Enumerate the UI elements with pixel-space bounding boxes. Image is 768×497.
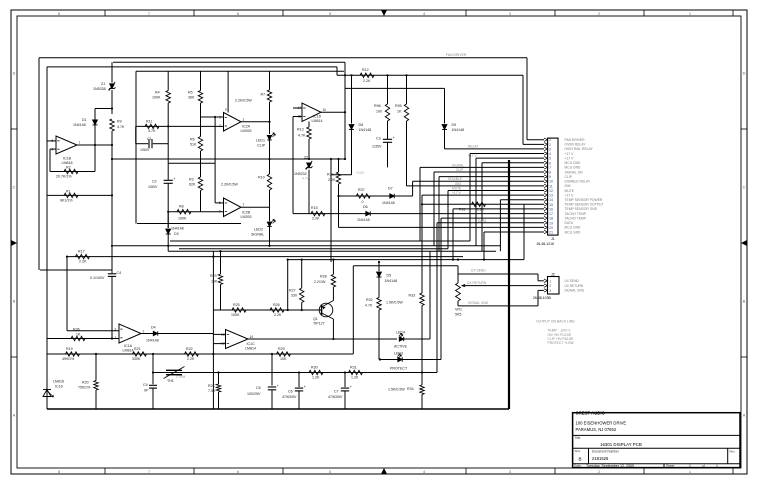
connector J1 pin 10 stub: [544, 180, 548, 183]
svg-text:LED1: LED1: [256, 139, 265, 143]
connector J1 pin 21 stub: [544, 230, 548, 233]
svg-text:100K: 100K: [178, 217, 187, 221]
capacitor C3: [383, 138, 392, 140]
wire R15 row left feeder: [292, 127, 294, 214]
op-amp IC1C: [226, 330, 249, 349]
wire bus row 5b: [353, 265, 458, 267]
LED LED3 PROTECT: [380, 359, 441, 361]
wire left bottom corner: [40, 269, 112, 271]
svg-text:D5: D5: [387, 274, 392, 278]
junction x213: [212, 256, 214, 258]
svg-text:J1: J1: [551, 237, 555, 241]
wire IC1B output: [77, 144, 112, 146]
connector J2 box: [548, 277, 560, 295]
wire middle box left edge: [135, 71, 137, 223]
capacitor C4: [111, 271, 113, 273]
svg-text:R28: R28: [320, 274, 327, 278]
wire row y310: [213, 309, 321, 311]
svg-text:Sheet: Sheet: [666, 464, 674, 468]
svg-text:R32: R32: [366, 298, 373, 302]
svg-text:2.2K: 2.2K: [274, 313, 282, 317]
svg-text:TEMP SENSOR POWER: TEMP SENSOR POWER: [565, 198, 603, 202]
junction C4 IC1A: [111, 337, 113, 339]
diode D4: [153, 331, 158, 336]
resistor R28: [332, 260, 334, 275]
connector J1 pin 2 stub: [544, 143, 548, 146]
svg-text:14: 14: [250, 335, 254, 339]
wire J1 pin16: [452, 209, 454, 260]
svg-text:Size: Size: [575, 449, 581, 453]
junction row372: [152, 371, 154, 373]
svg-text:R3: R3: [189, 178, 194, 182]
junction C7 top: [344, 371, 346, 373]
svg-text:R29: R29: [278, 347, 285, 351]
junction x67: [66, 256, 68, 258]
svg-text:CLIP: CLIP: [257, 144, 266, 148]
svg-text:13: 13: [549, 194, 553, 198]
svg-text:Title: Title: [575, 436, 581, 440]
resistor R27: [301, 260, 303, 288]
svg-text:21: 21: [549, 231, 553, 235]
wire bus row 2: [112, 245, 500, 247]
diode D1: [94, 109, 96, 120]
svg-text:7: 7: [148, 12, 150, 16]
svg-text:LM814: LM814: [123, 349, 134, 353]
resistor R34: [421, 373, 423, 386]
svg-text:TACHO TEMP: TACHO TEMP: [565, 212, 587, 216]
svg-text:1N4148: 1N4148: [73, 123, 86, 127]
svg-text:1.5K/0.5W: 1.5K/0.5W: [386, 300, 403, 304]
svg-text:PROTECT +LOW: PROTECT +LOW: [548, 341, 575, 345]
resistor R26: [270, 308, 284, 312]
resistor R37 row: [339, 195, 413, 197]
wire IC1A output: [141, 333, 213, 335]
border center marker bottom: [381, 468, 387, 474]
title block box: [573, 413, 740, 468]
wire J1 pin19 DATA: [436, 223, 438, 257]
svg-text:C: C: [743, 185, 746, 189]
svg-text:750/1%: 750/1%: [78, 385, 91, 389]
svg-text:IC1A: IC1A: [124, 344, 133, 348]
svg-text:14: 14: [549, 198, 553, 202]
svg-text:1N4148: 1N4148: [385, 279, 398, 283]
svg-text:CLIP: CLIP: [565, 175, 573, 179]
svg-text:MUTE: MUTE: [452, 187, 462, 191]
svg-text:7: 7: [243, 203, 245, 207]
svg-text:J2: J2: [551, 272, 555, 276]
capacitor C5: [271, 354, 273, 386]
svg-text:4: 4: [423, 12, 425, 16]
wire IC2B pin6 row R8: [168, 211, 223, 213]
svg-text:1/50V: 1/50V: [148, 185, 158, 189]
wire J1 pin20 rail: [339, 226, 545, 228]
svg-text:3: 3: [219, 116, 221, 120]
svg-text:Z2: Z2: [304, 155, 308, 159]
junction D5 top: [378, 261, 380, 263]
svg-text:2: 2: [549, 284, 551, 288]
resistor R19: [66, 352, 80, 356]
svg-text:UX SEND: UX SEND: [471, 268, 486, 272]
svg-text:C7: C7: [334, 389, 339, 393]
svg-text:R24: R24: [208, 384, 215, 388]
wire J1 pin15 feeder vertical: [523, 204, 525, 259]
svg-text:6: 6: [237, 470, 239, 474]
resistor R2: [50, 171, 95, 173]
wire left inner vertical: [46, 67, 48, 196]
svg-text:18: 18: [549, 217, 553, 221]
wire middle box bottom: [137, 223, 241, 225]
wire box3 top: [113, 61, 345, 63]
svg-text:R19: R19: [66, 347, 73, 351]
svg-text:Z1: Z1: [101, 82, 105, 86]
svg-text:+17 V: +17 V: [468, 154, 478, 158]
wire J1 pin10 DISABLE: [413, 180, 544, 182]
svg-text:R23: R23: [210, 274, 217, 278]
svg-text:LM814: LM814: [245, 347, 256, 351]
junction R20 top: [95, 353, 97, 355]
svg-text:IC1D: IC1D: [313, 115, 322, 119]
wire D9 rail: [345, 87, 445, 89]
svg-text:8: 8: [58, 12, 60, 16]
connector J1 pin 1 stub: [544, 138, 548, 141]
resistor R29: [277, 352, 291, 356]
svg-text:4.7K: 4.7K: [365, 303, 373, 307]
wire J1 pin12: [447, 190, 449, 248]
title block column line size: [588, 448, 590, 464]
wire IC1D output: [321, 111, 345, 113]
svg-text:16: 16: [549, 207, 553, 211]
resistor R32: [377, 298, 381, 311]
svg-text:100K: 100K: [152, 96, 161, 100]
svg-text:4: 4: [549, 152, 551, 156]
connector J1 pin 9 stub: [544, 175, 548, 178]
svg-text:LM818: LM818: [62, 161, 73, 165]
title block row line 3: [573, 463, 740, 465]
resistor R33: [421, 195, 423, 293]
svg-text:OVER RELAY: OVER RELAY: [565, 143, 587, 147]
svg-text:IC2B: IC2B: [242, 211, 251, 215]
svg-text:330K: 330K: [132, 357, 141, 361]
border zone ticks right: [741, 128, 747, 130]
svg-text:C: C: [13, 185, 16, 189]
svg-text:TEMP SENSOR GND: TEMP SENSOR GND: [565, 207, 598, 211]
op-amp IC2B: [224, 198, 242, 217]
junction R95 top: [405, 74, 407, 76]
svg-text:2: 2: [549, 143, 551, 147]
resistor R4: [167, 71, 169, 90]
svg-text:8: 8: [549, 171, 551, 175]
svg-text:SIGNAL GND: SIGNAL GND: [565, 289, 585, 293]
svg-text:R31: R31: [350, 366, 357, 370]
svg-text:1N4148: 1N4148: [452, 128, 465, 132]
svg-text:100K: 100K: [231, 313, 240, 317]
junction C6 top: [298, 371, 300, 373]
wire bottom rail: [47, 408, 509, 410]
junction bus row5: [483, 259, 485, 261]
svg-text:47/63/5V: 47/63/5V: [282, 395, 297, 399]
svg-text:R11: R11: [146, 120, 152, 124]
wire box2 top: [47, 66, 337, 68]
svg-text:6: 6: [237, 12, 239, 16]
svg-text:1N5232: 1N5232: [294, 172, 307, 176]
wire top box edge / FAN DRIVER net: [39, 57, 527, 59]
thermistor TH1: [166, 369, 182, 371]
svg-text:IC1B: IC1B: [63, 157, 72, 161]
svg-text:HIGH RAIL RELAY: HIGH RAIL RELAY: [565, 147, 594, 151]
connector J1 pin 17 stub: [544, 212, 548, 215]
resistor R11: [136, 125, 224, 127]
svg-text:SIGNAL GND: SIGNAL GND: [468, 301, 489, 305]
svg-text:OUTPUT ON BACK LINE:: OUTPUT ON BACK LINE:: [536, 319, 576, 323]
wire IC2A output: [241, 121, 270, 123]
wire left lower edge: [46, 67, 48, 409]
wire bus row 4b: [179, 248, 448, 250]
wire J1 pin4: [469, 154, 471, 241]
capacitor C9: [152, 354, 154, 384]
svg-text:10: 10: [549, 180, 553, 184]
svg-text:R37: R37: [358, 188, 365, 192]
junction D8 top: [350, 74, 352, 76]
border center marker left: [11, 240, 17, 246]
svg-text:15: 15: [549, 203, 553, 207]
resistor R15 row: [293, 213, 544, 215]
wire left outer vertical: [38, 58, 40, 270]
diode D5: [378, 262, 380, 271]
svg-text:7: 7: [148, 470, 150, 474]
wire row y372: [153, 372, 437, 374]
junction LED2 bottom: [268, 245, 270, 247]
svg-text:7.5K: 7.5K: [208, 389, 216, 393]
wire IC1C input stubs: [213, 333, 225, 335]
svg-text:D9: D9: [452, 123, 457, 127]
svg-text:2.2K: 2.2K: [312, 217, 320, 221]
svg-text:5: 5: [329, 12, 331, 16]
svg-text:A: A: [13, 413, 16, 417]
svg-text:1: 1: [689, 470, 691, 474]
capacitor C7: [344, 373, 346, 388]
svg-text:C5: C5: [256, 386, 261, 390]
svg-text:DISABLE RELAY: DISABLE RELAY: [565, 180, 592, 184]
svg-text:0.1/100V: 0.1/100V: [90, 276, 105, 280]
svg-text:B: B: [13, 299, 16, 303]
resistor R24: [218, 373, 220, 385]
capacitor C1: [135, 126, 137, 143]
wire J1 pin9: [438, 177, 440, 252]
svg-text:1: 1: [716, 464, 718, 468]
svg-text:IC16: IC16: [55, 384, 63, 388]
wire IC1C output: [248, 338, 397, 340]
svg-text:+17 V: +17 V: [565, 193, 575, 197]
svg-text:R8: R8: [179, 205, 184, 209]
wire J1 pin2: [522, 75, 524, 144]
svg-text:1N4148: 1N4148: [359, 128, 372, 132]
svg-text:62K: 62K: [189, 183, 196, 187]
svg-text:1: 1: [689, 464, 691, 468]
svg-text:R2: R2: [66, 166, 71, 170]
svg-text:2.2K: 2.2K: [477, 208, 485, 212]
svg-text:1.2K: 1.2K: [351, 376, 359, 380]
svg-text:Date:: Date:: [574, 464, 582, 468]
resistor R23: [220, 251, 222, 274]
connector J1 pin 5 stub: [544, 156, 548, 159]
svg-text:26-48-103B: 26-48-103B: [533, 296, 551, 300]
svg-text:4.7K: 4.7K: [298, 134, 306, 138]
svg-text:TH1: TH1: [167, 379, 174, 383]
svg-text:ACTIVE: ACTIVE: [394, 345, 408, 349]
capacitor C6: [298, 373, 300, 388]
resistor R96: [387, 75, 389, 104]
junction LED3: [379, 358, 381, 360]
LED LED2: [269, 207, 271, 221]
svg-text:8: 8: [58, 470, 60, 474]
connector J1 box: [548, 138, 558, 235]
op-amp IC1B: [56, 136, 77, 154]
title block column line sheet: [663, 464, 665, 468]
connector J2 pin 3: [544, 289, 548, 292]
svg-text:R9: R9: [117, 120, 122, 124]
svg-text:1N5338: 1N5338: [93, 87, 106, 91]
resistor R5: [200, 71, 202, 90]
resistor R13: [308, 122, 310, 128]
resistor R14: [338, 159, 340, 172]
wire VR1 top to J2 pin1: [458, 273, 538, 275]
svg-text:IC2A: IC2A: [242, 125, 251, 129]
resistor R17: [76, 254, 90, 258]
svg-text:+: +: [393, 136, 395, 140]
connector J1 pin 13 stub: [544, 193, 548, 196]
svg-text:26-48-1216: 26-48-1216: [537, 242, 554, 246]
svg-text:R10: R10: [258, 176, 265, 180]
connector J1 pin 14 stub: [544, 198, 548, 201]
svg-text:Q1: Q1: [313, 317, 318, 321]
wire row354 riser: [352, 266, 354, 354]
svg-text:2.2/1W: 2.2/1W: [314, 280, 326, 284]
wire IC1B pin5: [47, 140, 56, 142]
title block column line rev: [727, 448, 729, 464]
svg-text:2181526: 2181526: [592, 456, 609, 461]
junction LED1: [268, 121, 270, 123]
svg-text:1: 1: [243, 118, 245, 122]
svg-text:C1: C1: [147, 137, 152, 141]
svg-text:MCU GND: MCU GND: [565, 166, 582, 170]
wire J1 pin3 RELAY: [445, 148, 545, 150]
svg-text:TEMP - .10V/-C: TEMP - .10V/-C: [548, 329, 572, 333]
svg-text:2.2K/0.5W: 2.2K/0.5W: [221, 183, 238, 187]
svg-text:3: 3: [509, 12, 511, 16]
svg-text:12: 12: [221, 342, 225, 346]
svg-text:+: +: [350, 385, 352, 389]
svg-text:LED2: LED2: [254, 227, 263, 231]
svg-text:3: 3: [509, 470, 511, 474]
svg-text:R7: R7: [261, 93, 266, 97]
svg-text:SIGNAL: SIGNAL: [452, 163, 464, 167]
svg-text:R34: R34: [407, 387, 414, 391]
svg-text:R20: R20: [82, 380, 89, 384]
svg-text:R95: R95: [395, 104, 402, 108]
svg-text:+17 V: +17 V: [565, 156, 575, 160]
resistor R20: [95, 354, 97, 381]
connector J1 pin 16 stub: [544, 207, 548, 210]
svg-text:R22: R22: [186, 347, 193, 351]
junction R14 top: [337, 158, 339, 160]
svg-text:R15: R15: [311, 206, 318, 210]
wire VR1 wiper to J2 pin2: [462, 285, 544, 287]
svg-text:UX RETURN: UX RETURN: [467, 281, 487, 285]
junction R96 top: [386, 74, 388, 76]
svg-text:1: 1: [549, 279, 551, 283]
svg-text:2: 2: [598, 12, 600, 16]
svg-text:1N4148: 1N4148: [357, 218, 370, 222]
svg-text:16301 DISPLAY PCB: 16301 DISPLAY PCB: [600, 442, 642, 447]
junction D3 top: [167, 211, 169, 213]
connector J1 pin 20 stub: [544, 226, 548, 229]
resistor R7: [269, 71, 271, 90]
svg-text:4: 4: [423, 470, 425, 474]
junction pin3: [214, 116, 216, 118]
svg-text:1: 1: [689, 12, 691, 16]
svg-text:CREST AUDIO: CREST AUDIO: [576, 410, 606, 415]
connector J2 pin 1: [544, 279, 548, 282]
svg-text:DATA: DATA: [478, 219, 487, 223]
svg-text:4.7K: 4.7K: [148, 129, 156, 133]
wire J1 pin5: [475, 158, 477, 246]
svg-text:ISM: ISM: [455, 182, 461, 186]
svg-text:100/25V: 100/25V: [247, 392, 261, 396]
diode D6: [366, 211, 371, 216]
svg-text:TACHO TEMP: TACHO TEMP: [565, 216, 587, 220]
wire LED4 right vertical: [429, 251, 431, 339]
wire middle box top: [136, 70, 344, 72]
svg-text:2.2K: 2.2K: [79, 260, 87, 264]
wire vertical x331: [330, 159, 332, 262]
svg-text:IC1C: IC1C: [247, 342, 256, 346]
svg-text:10: 10: [323, 108, 327, 112]
svg-text:+17 V: +17 V: [452, 191, 462, 195]
svg-text:12: 12: [549, 189, 553, 193]
connector J1 pin 3 stub: [544, 147, 548, 150]
svg-text:20: 20: [549, 226, 553, 230]
wire IC1A pin3 row: [67, 330, 119, 332]
svg-text:FAN DRIVER: FAN DRIVER: [446, 53, 467, 57]
svg-text:R21: R21: [134, 347, 141, 351]
wire IC1B pin6 stub: [50, 148, 56, 150]
svg-text:LM814: LM814: [312, 119, 323, 123]
svg-text:499/1%: 499/1%: [62, 357, 75, 361]
svg-text:1.5K/0.5W: 1.5K/0.5W: [388, 388, 405, 392]
wire J1 pin14: [499, 200, 501, 252]
junction R33: [421, 203, 423, 205]
resistor R21 330K: [133, 352, 147, 356]
svg-text:4.7V: 4.7V: [302, 176, 310, 180]
title block row line 2: [573, 447, 740, 449]
svg-text:D1: D1: [82, 118, 87, 122]
wire IC1D pin14 stub: [293, 107, 302, 109]
op-amp IC1D: [302, 103, 321, 122]
resistor R95: [406, 75, 408, 104]
diode D9: [444, 88, 446, 123]
svg-text:CTRM: CTRM: [176, 375, 186, 379]
svg-text:R27: R27: [289, 289, 296, 293]
svg-text:R25: R25: [233, 303, 240, 307]
svg-text:2.2K/0.5W: 2.2K/0.5W: [235, 99, 252, 103]
wire J1 pin13 via R33 column: [422, 194, 544, 196]
wire J1 pin15 with resistor R16: [422, 203, 544, 205]
svg-text:1/35V: 1/35V: [372, 145, 382, 149]
svg-text:R4: R4: [155, 91, 160, 95]
svg-text:C3: C3: [376, 137, 381, 141]
svg-text:19: 19: [549, 221, 553, 225]
wire VR1 bottom to J2 pin3: [458, 305, 538, 307]
